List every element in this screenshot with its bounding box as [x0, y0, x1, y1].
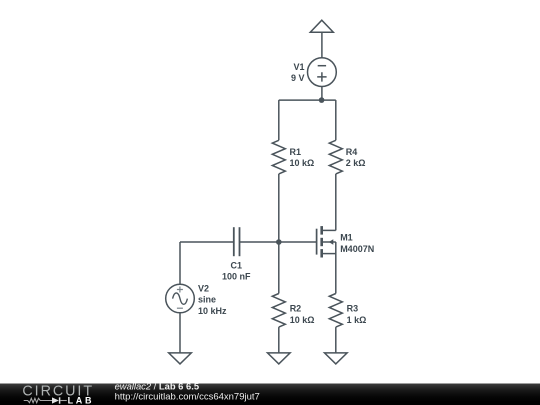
- transistor M1 body lead with arrow: [323, 241, 336, 243]
- transistor M1 source lead: [323, 253, 336, 255]
- svg-text:V1: V1: [293, 62, 304, 72]
- ground symbol R3: [325, 353, 348, 364]
- svg-text:ewallac2 / Lab 6 6.5: ewallac2 / Lab 6 6.5: [115, 381, 199, 392]
- transistor M1 drain lead: [323, 229, 336, 231]
- svg-text:M1: M1: [340, 233, 353, 243]
- capacitor C1 right plate: [239, 227, 241, 256]
- node junction dot gate node: [276, 239, 282, 245]
- capacitor C1 left plate: [233, 227, 235, 256]
- svg-text:10 kΩ: 10 kΩ: [290, 315, 315, 325]
- wire R1 to gate node: [278, 174, 280, 242]
- V1 minus sign: [318, 65, 326, 67]
- wire M1 source down to R3: [335, 242, 337, 294]
- svg-text:C1: C1: [231, 261, 243, 271]
- transistor M1 channel middle bar: [320, 238, 323, 246]
- svg-text:R1: R1: [290, 147, 302, 157]
- wire R3 to ground: [335, 327, 337, 353]
- top rail wire: [279, 99, 336, 101]
- wire V2 bottom to ground: [179, 313, 181, 353]
- svg-text:http://circuitlab.com/ccs64xn7: http://circuitlab.com/ccs64xn79jut7: [115, 391, 260, 402]
- wire V1 bottom to rail junction: [321, 87, 323, 101]
- svg-text:1 kΩ: 1 kΩ: [347, 315, 367, 325]
- footer bar: [0, 384, 540, 405]
- CircuitLab logo resistor-diode glyph: [24, 398, 52, 402]
- resistor R2: [272, 294, 285, 328]
- svg-text:9 V: 9 V: [291, 73, 305, 83]
- svg-text:2 kΩ: 2 kΩ: [346, 158, 366, 168]
- resistor R3: [329, 294, 342, 328]
- node junction dot top rail: [319, 97, 325, 103]
- capacitor C1 left wire: [180, 241, 234, 243]
- svg-text:10 kΩ: 10 kΩ: [290, 158, 315, 168]
- wire gate node to M1 gate: [279, 241, 317, 243]
- svg-text:R2: R2: [290, 304, 302, 314]
- V1 plus sign: [317, 72, 326, 81]
- transistor M1 gate bar: [316, 229, 318, 255]
- svg-text:sine: sine: [198, 295, 216, 305]
- V2 sine wave: [173, 293, 188, 304]
- transistor M1 channel top bar: [320, 226, 323, 235]
- V2 plus sign: [177, 287, 183, 293]
- ground symbol R2: [268, 353, 291, 364]
- V2 minus sign: [177, 307, 183, 309]
- svg-text:R4: R4: [346, 147, 358, 157]
- svg-text:100 nF: 100 nF: [222, 272, 251, 282]
- svg-text:V2: V2: [198, 284, 209, 294]
- VCC power symbol: [310, 20, 333, 32]
- wire gate node down to R2: [278, 242, 280, 294]
- capacitor C1 right wire: [240, 241, 279, 243]
- svg-text:R3: R3: [347, 304, 359, 314]
- resistor R1: [272, 140, 285, 174]
- voltage source V2 circle: [166, 284, 195, 313]
- wire rail to R1: [278, 100, 280, 140]
- ground symbol V2: [169, 353, 192, 364]
- resistor R4: [329, 140, 342, 174]
- wire rail to R4: [335, 100, 337, 140]
- wire R4 to M1 drain: [335, 174, 337, 231]
- wire R2 to ground: [278, 327, 280, 353]
- transistor M1 channel bottom bar: [320, 249, 323, 257]
- voltage source V1 circle: [308, 58, 337, 87]
- wire VCC to V1 top: [321, 32, 323, 58]
- svg-text:LAB: LAB: [68, 395, 95, 405]
- wire V2 top: [179, 242, 181, 284]
- svg-text:M4007N: M4007N: [340, 244, 374, 254]
- svg-text:10 kHz: 10 kHz: [198, 306, 227, 316]
